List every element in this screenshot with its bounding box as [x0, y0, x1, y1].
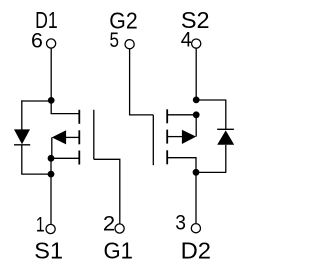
body diode of Q2 cathode bar: [217, 128, 234, 130]
Q1 channel middle bar (body): [78, 130, 80, 144]
Q1 channel bottom bar (source): [78, 151, 80, 165]
wire pin5 to Q2 gate: [130, 49, 154, 115]
wire body diode D1 cathode drop: [21, 145, 23, 174]
wire body diode Q2 cathode drop: [225, 100, 227, 129]
Q1 body arrow (points left, P-channel): [52, 130, 66, 144]
junction dot node S2 (diode branch): [193, 97, 200, 104]
svg-text:3: 3: [175, 211, 186, 235]
wire source tie down to node S1: [50, 158, 52, 174]
wire node D1 to body diode D1 top: [21, 100, 51, 102]
Q2 channel bottom bar (drain): [166, 150, 168, 164]
wire diode bottom to node S1: [21, 173, 51, 175]
junction dot Q2 source tie: [193, 111, 200, 118]
junction dot node D1 (drain Q1 / diode): [48, 97, 55, 104]
svg-text:5: 5: [110, 28, 120, 52]
wire body diode Q2 anode drop: [225, 145, 227, 173]
pin 3 terminal circle: [191, 224, 200, 233]
pin 1 terminal circle: [46, 224, 55, 233]
wire drain elbow Q2: [168, 158, 196, 173]
Q1 source stub wire: [51, 157, 79, 159]
pin 4 terminal circle: [192, 39, 201, 48]
junction dot Q1 source/body tie: [48, 155, 55, 162]
wire arrow tip down to source node: [51, 137, 53, 158]
junction dot node D2: [193, 169, 200, 176]
wire body diode D1 anode drop: [21, 100, 23, 129]
Q2 body stub wire: [168, 136, 183, 138]
wire node S2 to body diode D2 top: [196, 99, 226, 101]
pin 5 terminal circle: [125, 40, 134, 49]
body diode of Q1 (anode triangle, pointing down): [14, 129, 30, 144]
pin 6 terminal circle: [47, 39, 56, 48]
Q1 gate hook wire to pin 2: [94, 159, 120, 223]
wire diode bottom to node D2: [196, 171, 226, 173]
wire drain stub elbow Q1: [51, 101, 78, 114]
body diode of Q1 cathode bar: [14, 144, 30, 146]
Q1 channel top bar (drain): [78, 110, 80, 124]
Q1 body stub wire: [66, 136, 79, 138]
svg-text:6: 6: [31, 29, 43, 53]
body diode of Q2 (anode triangle, pointing up): [217, 130, 234, 144]
Q2 gate bar: [152, 115, 154, 165]
wire pin6 to node D1: [50, 48, 52, 101]
wire main line down to Q2 body arrow tip: [195, 115, 197, 137]
wire pin4 to node S2: [195, 48, 197, 100]
svg-text:2: 2: [103, 211, 115, 235]
wire source stub Q2: [168, 114, 196, 116]
wire node S1 to pin 1: [50, 174, 52, 224]
Q1 gate bar: [93, 110, 95, 160]
junction dot node S1: [48, 171, 55, 178]
Q2 channel middle bar (body): [166, 130, 168, 144]
svg-text:S1: S1: [34, 238, 63, 264]
svg-text:D2: D2: [181, 237, 211, 263]
svg-text:1: 1: [36, 213, 45, 237]
svg-text:4: 4: [181, 28, 192, 52]
pin 2 terminal circle: [115, 224, 124, 233]
Q2 body arrow (points right, P-channel): [182, 130, 196, 144]
wire node D2 to pin 3: [195, 172, 197, 223]
svg-text:G1: G1: [104, 237, 133, 263]
Q2 channel top bar (source): [166, 109, 168, 123]
